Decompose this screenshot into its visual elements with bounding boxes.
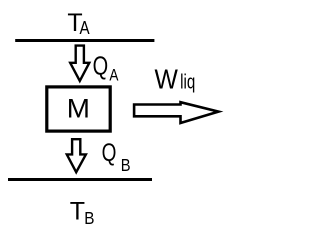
cold reservoir line T_B xyxy=(8,178,152,181)
heat output arrow Q_B (hollow down block arrow) xyxy=(67,139,86,172)
svg-text:W: W xyxy=(155,63,179,95)
svg-text:B: B xyxy=(121,156,131,175)
svg-text:liq: liq xyxy=(180,70,195,93)
label W_liq (net work output) xyxy=(155,63,196,95)
svg-text:B: B xyxy=(84,208,94,228)
label T_B (cold reservoir temperature) xyxy=(70,197,95,228)
svg-text:T: T xyxy=(70,197,85,225)
work output arrow W_liq (hollow right block arrow) xyxy=(134,102,218,123)
label Q_B (heat rejected) xyxy=(102,138,131,175)
svg-text:A: A xyxy=(80,17,91,38)
label Q_A (heat input) xyxy=(93,51,120,85)
svg-text:Q: Q xyxy=(102,138,117,166)
svg-text:M: M xyxy=(67,93,90,123)
hot reservoir line T_A xyxy=(15,39,154,42)
heat input arrow Q_A (hollow down block arrow) xyxy=(70,46,89,81)
svg-text:Q: Q xyxy=(93,51,109,80)
engine box M xyxy=(47,87,110,131)
label T_A (hot reservoir temperature) xyxy=(67,9,90,38)
svg-text:A: A xyxy=(109,66,119,85)
